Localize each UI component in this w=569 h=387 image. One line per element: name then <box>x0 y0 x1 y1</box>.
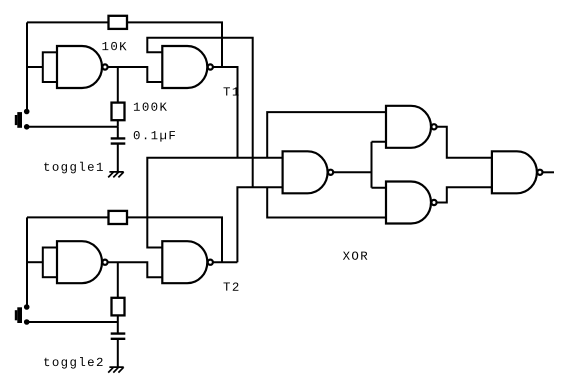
node: SW2 upper contact <box>24 304 30 310</box>
wire: left rail toggle2 <box>26 217 28 307</box>
svg-text:T2: T2 <box>223 281 241 295</box>
node: SW1 upper contact <box>24 109 30 115</box>
wire: U6 output to U8 upper input <box>437 127 492 158</box>
node: U1 input tie bracket <box>43 52 57 82</box>
wire: R4 bottom to node B2 <box>117 315 119 322</box>
capacitor C2 <box>111 334 126 339</box>
svg-text:100K: 100K <box>133 101 168 115</box>
wire: U3 input <box>27 261 43 263</box>
wire: U2 output T1 to line1 <box>213 67 238 158</box>
op-amp U5 (NAND gate XOR input) <box>283 151 334 193</box>
op-amp U2 (NAND gate) <box>162 46 213 88</box>
svg-text:toggle1: toggle1 <box>43 161 105 175</box>
op-amp U6 (NAND gate) <box>386 106 437 148</box>
wire: T2 branch down to U7 lower input <box>267 187 386 217</box>
wire: net line2 T2 to U5 lower input <box>237 187 282 262</box>
op-amp U1 (NAND gate) <box>57 46 108 88</box>
wire: RC tap down from U3 output <box>117 262 119 298</box>
svg-text:toggle2: toggle2 <box>43 356 105 370</box>
wire: U7 output to U8 lower input <box>437 187 492 202</box>
wire: 100K bottom to node B junction <box>117 120 119 127</box>
wire: net line1 T1 to U5 upper input and down to U4 upper input <box>147 158 282 248</box>
ground GND2 <box>108 367 124 373</box>
wire: node B to switch SW1 lower contact <box>27 126 118 128</box>
resistor R1 10K <box>109 16 128 29</box>
op-amp U3 (NAND gate) <box>57 241 108 283</box>
wire: node B down to capacitor C1 <box>117 127 119 138</box>
ground GND1 <box>108 172 124 178</box>
wire: C1 bottom lead <box>117 144 119 172</box>
wire: U4 output T2 <box>213 261 238 263</box>
wire: toggle1 top feedback (left rail top to 10K left lead) <box>27 21 109 23</box>
node: SW1 lower contact <box>24 124 30 130</box>
node: SW2 lower contact <box>24 319 30 325</box>
wire: U1 output to U2 lower input <box>108 67 163 82</box>
switch SW2 pushbutton toggle2 <box>17 307 22 323</box>
wire: toggle2 top feedback <box>27 216 109 218</box>
wire: T1 branch up to U6 upper input <box>267 112 386 158</box>
wire: 10K#2 right lead to drop at x=222 <box>127 217 222 262</box>
wire: 10K right lead to vertical drop at x=222 <box>127 22 222 67</box>
op-amp U4 (NAND gate) <box>162 241 213 283</box>
capacitor C1 0.1uF <box>111 138 126 143</box>
resistor R4 100K <box>112 298 125 316</box>
wire: node B2 to SW2 lower contact <box>27 321 118 323</box>
resistor R3 10K <box>109 211 128 224</box>
wire: U1 input <box>27 66 43 68</box>
wire: U3 output to U4 lower input <box>108 262 163 277</box>
wire: U5 output split to U6 and U7 <box>333 142 386 188</box>
wire: left rail toggle1 <box>26 22 28 111</box>
wire: RC tap down from U1 output to 100K <box>117 67 119 103</box>
op-amp U7 (NAND gate) <box>386 182 437 224</box>
resistor R2 100K <box>112 103 125 121</box>
switch SW1 pushbutton toggle1 <box>17 112 22 128</box>
svg-text:XOR: XOR <box>343 250 370 264</box>
svg-text:10K: 10K <box>101 40 128 54</box>
op-amp U8 (NAND gate output) <box>492 151 543 193</box>
wire: U2 upper input from T2 crossover net <box>147 38 252 187</box>
node: U3 input tie bracket <box>43 248 57 278</box>
svg-text:0.1µF: 0.1µF <box>133 129 177 143</box>
wire: node B2 down to capacitor C2 <box>117 322 119 333</box>
wire: U8 output stub <box>543 171 555 173</box>
wire: C2 bottom lead <box>117 339 119 367</box>
